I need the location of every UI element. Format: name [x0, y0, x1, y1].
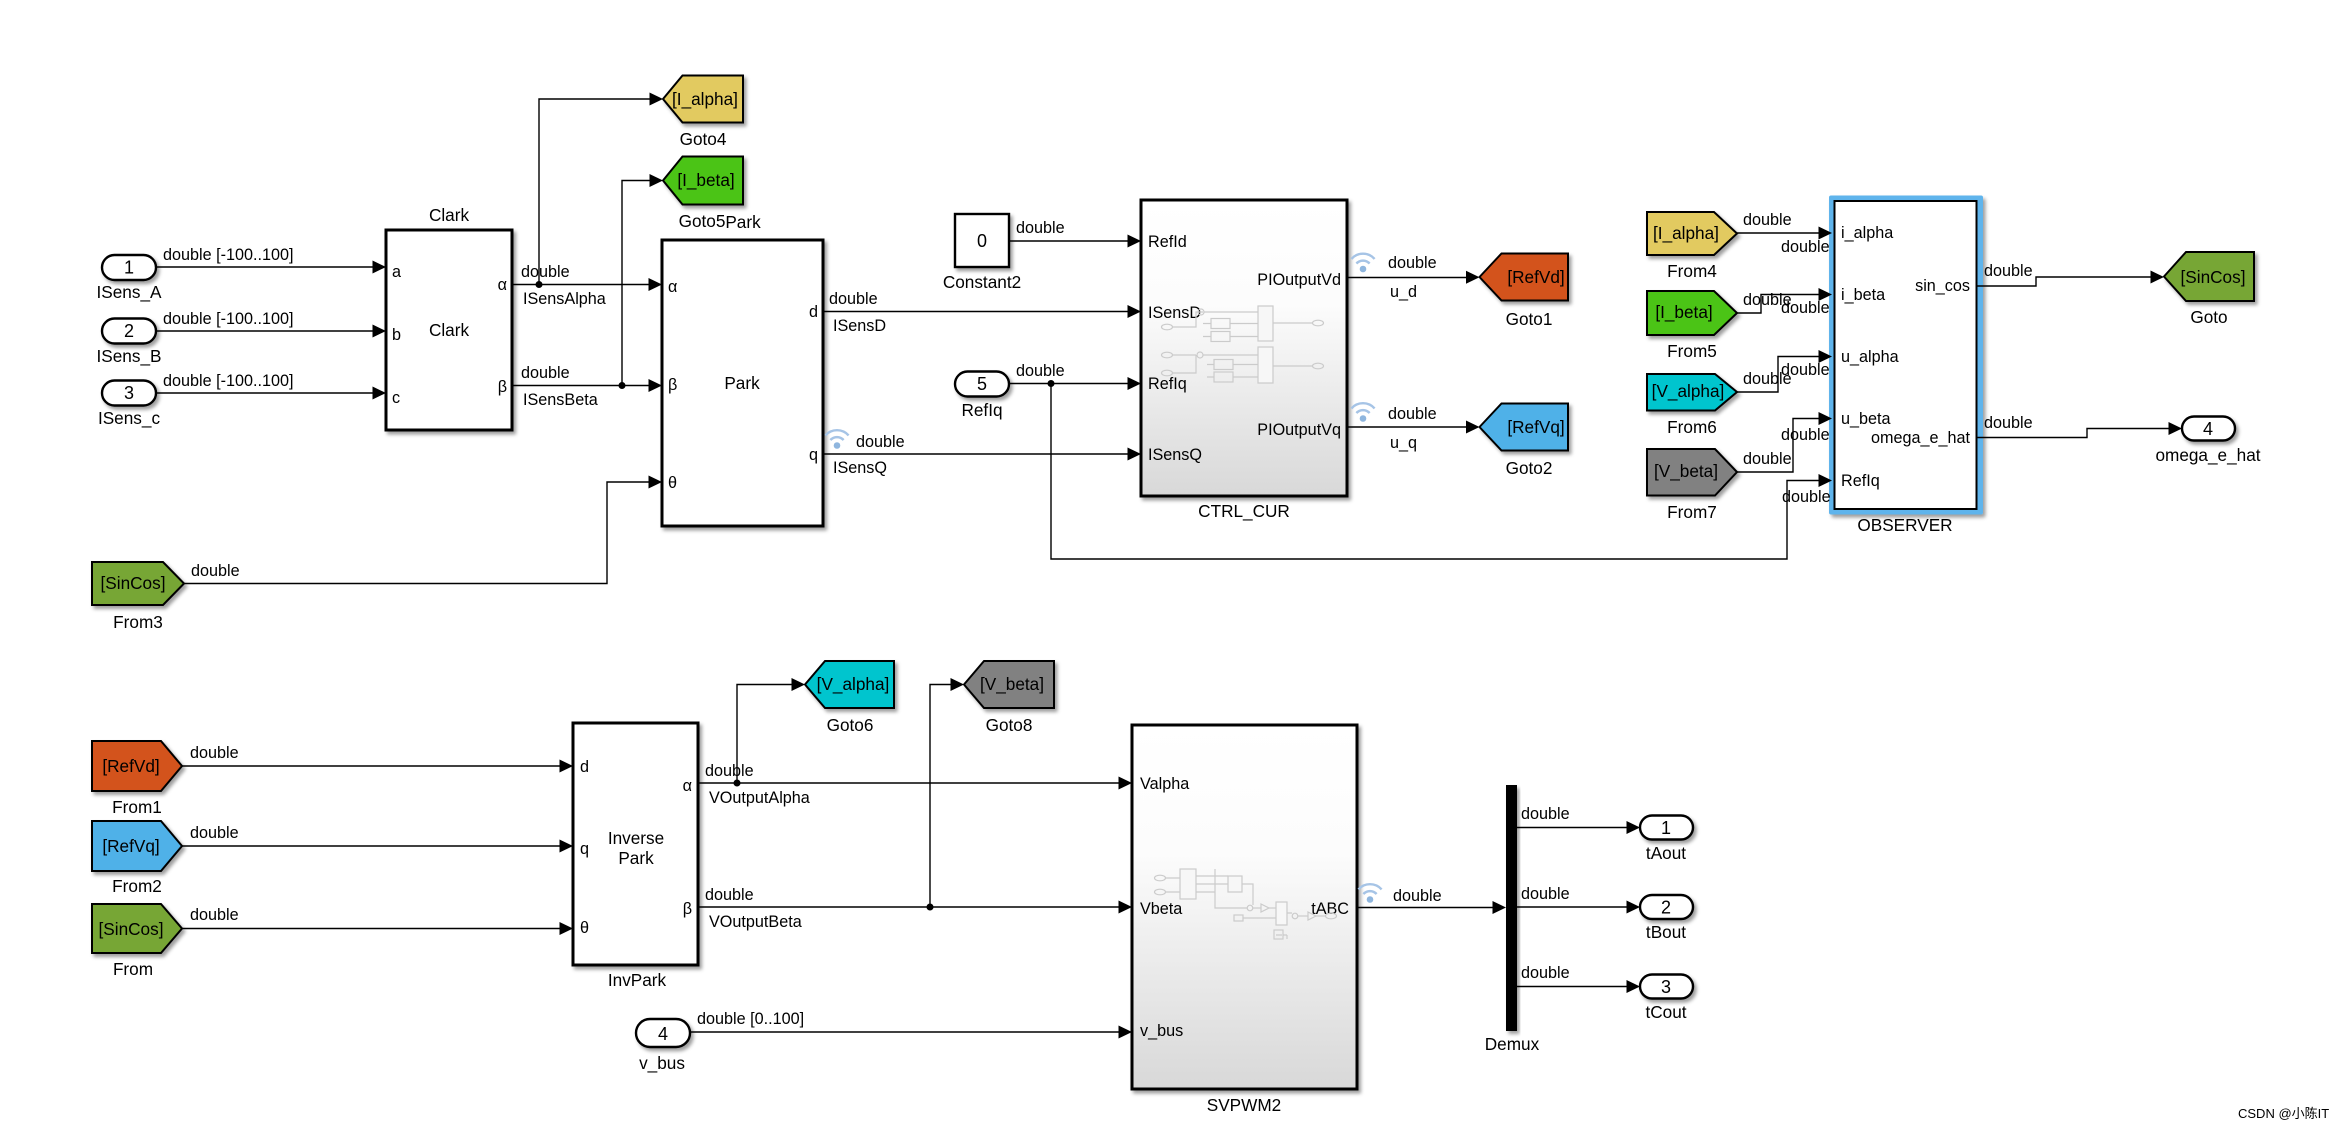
- svg-text:4: 4: [658, 1024, 668, 1044]
- wire sin_cos to Goto SinCos: [1977, 262, 2164, 286]
- svg-text:RefIq: RefIq: [1841, 472, 1880, 490]
- svg-text:CTRL_CUR: CTRL_CUR: [1198, 501, 1290, 521]
- svg-text:Goto6: Goto6: [827, 715, 874, 735]
- wire From6 to u_alpha: [1737, 350, 1832, 392]
- goto Goto SinCos: [2164, 252, 2254, 327]
- wire Demux to tBout: [1517, 885, 1640, 914]
- svg-text:double: double: [1782, 488, 1831, 506]
- svg-text:From: From: [113, 959, 153, 979]
- svg-text:OBSERVER: OBSERVER: [1857, 515, 1952, 535]
- svg-text:From1: From1: [112, 797, 162, 817]
- svg-text:3: 3: [1661, 977, 1671, 997]
- svg-text:double: double: [1016, 219, 1065, 237]
- svg-text:tBout: tBout: [1646, 922, 1686, 942]
- svg-text:double: double: [1781, 238, 1830, 256]
- svg-text:double: double: [1781, 299, 1830, 317]
- svg-text:[RefVq]: [RefVq]: [102, 836, 159, 856]
- svg-text:Vbeta: Vbeta: [1140, 900, 1182, 918]
- svg-text:v_bus: v_bus: [1140, 1022, 1183, 1040]
- svg-text:q: q: [580, 840, 589, 858]
- svg-text:RefId: RefId: [1148, 233, 1187, 251]
- svg-text:sin_cos: sin_cos: [1915, 277, 1970, 295]
- wire InvPark beta to Vbeta: [698, 886, 1132, 931]
- svg-text:α: α: [683, 777, 692, 795]
- wire From to InvPark theta: [182, 906, 573, 935]
- goto Goto6 V_alpha: [805, 661, 894, 735]
- goto Goto2 RefVq: [1480, 404, 1569, 479]
- svg-text:Goto: Goto: [2190, 307, 2227, 327]
- svg-text:d: d: [809, 303, 818, 321]
- wire From3 to Park theta: [184, 476, 662, 584]
- junction on VOutputAlpha: [734, 780, 741, 787]
- svg-text:a: a: [392, 263, 401, 281]
- svg-text:Goto5: Goto5: [679, 211, 726, 231]
- svg-text:i_alpha: i_alpha: [1841, 224, 1893, 242]
- svg-text:u_d: u_d: [1390, 283, 1417, 301]
- svg-text:omega_e_hat: omega_e_hat: [1871, 429, 1971, 447]
- svg-text:Demux: Demux: [1485, 1034, 1540, 1054]
- svg-text:β: β: [683, 900, 692, 918]
- svg-text:[I_alpha]: [I_alpha]: [1653, 223, 1719, 243]
- svg-text:double: double: [1743, 450, 1792, 468]
- svg-text:double: double: [1743, 211, 1792, 229]
- svg-text:double: double: [1388, 405, 1437, 423]
- from From6 V_alpha: [1647, 374, 1737, 437]
- svg-text:double: double: [1984, 262, 2033, 280]
- svg-text:[SinCos]: [SinCos]: [99, 919, 164, 939]
- outport 3 tCout: [1640, 975, 1693, 1023]
- svg-text:From5: From5: [1667, 341, 1717, 361]
- from From5 I_beta: [1647, 291, 1737, 361]
- goto Goto4 I_alpha: [663, 76, 743, 150]
- subsystem Clark: [386, 205, 512, 430]
- wire branch to Goto4: [539, 93, 663, 285]
- svg-text:b: b: [392, 326, 401, 344]
- svg-text:[V_alpha]: [V_alpha]: [817, 674, 890, 694]
- svg-text:double: double: [1521, 805, 1570, 823]
- svg-text:double: double: [190, 824, 239, 842]
- junction on RefIq wire: [1048, 380, 1055, 387]
- svg-text:[I_beta]: [I_beta]: [1655, 302, 1712, 322]
- svg-text:[V_beta]: [V_beta]: [980, 674, 1044, 694]
- svg-text:Clark: Clark: [429, 205, 470, 225]
- svg-text:From6: From6: [1667, 417, 1717, 437]
- svg-text:2: 2: [1661, 898, 1671, 918]
- subsystem OBSERVER selected: [1829, 196, 1983, 536]
- wire ISens_B to Clark b: [156, 310, 386, 338]
- svg-text:Clark: Clark: [429, 320, 470, 340]
- wire Demux to tCout: [1517, 964, 1640, 993]
- svg-text:[V_beta]: [V_beta]: [1654, 461, 1718, 481]
- from From4 I_alpha: [1647, 212, 1737, 281]
- svg-text:omega_e_hat: omega_e_hat: [2155, 445, 2260, 465]
- svg-text:Goto2: Goto2: [1506, 458, 1553, 478]
- svg-text:[SinCos]: [SinCos]: [101, 573, 166, 593]
- wire omega_e_hat to outport 4: [1977, 414, 2182, 438]
- svg-text:ISensAlpha: ISensAlpha: [523, 290, 606, 308]
- svg-text:ISensD: ISensD: [833, 317, 886, 335]
- goto Goto8 V_beta: [964, 661, 1054, 735]
- svg-text:ISensD: ISensD: [1148, 304, 1201, 322]
- svg-text:double: double: [829, 290, 878, 308]
- svg-text:From2: From2: [112, 876, 162, 896]
- svg-text:i_beta: i_beta: [1841, 286, 1885, 304]
- inport 4 v_bus: [636, 1019, 690, 1073]
- inport 5 RefIq: [955, 372, 1009, 421]
- junction on ISensBeta: [619, 382, 626, 389]
- from From2 RefVq: [92, 821, 182, 896]
- svg-text:u_q: u_q: [1390, 434, 1417, 452]
- svg-text:double: double: [191, 562, 240, 580]
- goto Goto1 RefVd: [1480, 254, 1569, 330]
- from From1 RefVd: [92, 741, 182, 817]
- wire Clark alpha to Park alpha: [512, 263, 662, 308]
- outport 2 tBout: [1640, 895, 1693, 942]
- subsystem SVPWM2: [1132, 725, 1357, 1115]
- subsystem Park: [662, 212, 823, 526]
- svg-text:Valpha: Valpha: [1140, 775, 1189, 793]
- wire ISens_A to Clark a: [156, 246, 386, 274]
- wire Park q to ISensQ: [823, 430, 1141, 477]
- wire tABC to Demux: [1357, 884, 1506, 914]
- svg-text:tABC: tABC: [1311, 900, 1349, 918]
- svg-text:β: β: [668, 376, 677, 394]
- svg-text:c: c: [392, 389, 400, 407]
- wire From4 to i_alpha: [1737, 211, 1832, 256]
- svg-text:Goto4: Goto4: [680, 129, 727, 149]
- inport 3 ISens_c: [98, 381, 161, 429]
- svg-text:Inverse: Inverse: [608, 828, 664, 848]
- svg-text:double [-100..100]: double [-100..100]: [163, 246, 294, 264]
- svg-text:[I_beta]: [I_beta]: [677, 170, 734, 190]
- svg-text:double: double: [1521, 964, 1570, 982]
- svg-text:α: α: [498, 276, 507, 294]
- svg-text:4: 4: [2203, 419, 2213, 439]
- wire From7 to u_beta: [1737, 412, 1832, 472]
- svg-text:3: 3: [124, 383, 134, 403]
- SVPWM2 content preview: [1155, 869, 1337, 939]
- svg-text:PIOutputVd: PIOutputVd: [1257, 271, 1341, 289]
- outport 1 tAout: [1640, 816, 1693, 864]
- goto Goto5 I_beta: [663, 157, 743, 232]
- junction on ISensAlpha: [536, 281, 543, 288]
- svg-text:InvPark: InvPark: [608, 970, 667, 990]
- svg-text:[RefVd]: [RefVd]: [102, 756, 159, 776]
- svg-text:q: q: [809, 446, 818, 464]
- svg-text:RefIq: RefIq: [961, 400, 1002, 420]
- svg-text:Goto1: Goto1: [1506, 309, 1553, 329]
- svg-text:Park: Park: [618, 848, 654, 868]
- svg-text:Park: Park: [725, 212, 761, 232]
- wire Clark beta to Park beta: [512, 364, 662, 409]
- wire From2 to InvPark q: [182, 824, 573, 853]
- svg-text:double: double: [190, 744, 239, 762]
- wire Park d to ISensD: [823, 290, 1141, 335]
- outport 4 omega_e_hat: [2155, 417, 2260, 466]
- wire ISens_c to Clark c: [156, 372, 386, 400]
- svg-text:Constant2: Constant2: [943, 272, 1021, 292]
- svg-text:double: double: [521, 263, 570, 281]
- svg-text:[SinCos]: [SinCos]: [2181, 267, 2246, 287]
- svg-text:1: 1: [124, 258, 134, 278]
- svg-text:CSDN @小陈IT: CSDN @小陈IT: [2238, 1106, 2329, 1121]
- svg-text:[RefVd]: [RefVd]: [1507, 267, 1564, 287]
- wire RefIq port to CTRL RefIq: [1009, 362, 1141, 390]
- svg-text:Park: Park: [724, 373, 760, 393]
- svg-text:VOutputBeta: VOutputBeta: [709, 913, 802, 931]
- svg-text:double: double: [856, 433, 905, 451]
- svg-text:5: 5: [977, 374, 987, 394]
- wire branch to Goto6: [737, 678, 805, 783]
- svg-text:2: 2: [124, 321, 134, 341]
- svg-text:From3: From3: [113, 612, 163, 632]
- svg-text:double [0..100]: double [0..100]: [697, 1010, 804, 1028]
- svg-text:u_alpha: u_alpha: [1841, 348, 1899, 366]
- svg-text:double: double: [190, 906, 239, 924]
- svg-text:double: double: [705, 762, 754, 780]
- svg-text:double: double: [521, 364, 570, 382]
- inport 1 ISens_A: [97, 255, 163, 302]
- svg-text:double: double: [1781, 361, 1830, 379]
- inport 2 ISens_B: [97, 319, 162, 367]
- svg-text:1: 1: [1661, 818, 1671, 838]
- svg-text:α: α: [668, 278, 677, 296]
- from From7 V_beta: [1647, 449, 1737, 522]
- svg-text:ISensBeta: ISensBeta: [523, 391, 598, 409]
- svg-text:double: double: [1984, 414, 2033, 432]
- svg-text:u_beta: u_beta: [1841, 410, 1891, 428]
- junction on VOutputBeta: [927, 904, 934, 911]
- constant Constant2: [943, 214, 1021, 292]
- wire PIOutputVd to Goto1: [1347, 254, 1480, 301]
- demux Demux: [1485, 785, 1540, 1054]
- svg-text:v_bus: v_bus: [639, 1053, 685, 1073]
- svg-text:ISensQ: ISensQ: [833, 459, 887, 477]
- svg-text:double [-100..100]: double [-100..100]: [163, 310, 294, 328]
- svg-text:PIOutputVq: PIOutputVq: [1257, 421, 1341, 439]
- svg-text:tAout: tAout: [1646, 843, 1686, 863]
- svg-text:double: double: [1393, 887, 1442, 905]
- svg-text:double: double: [1781, 426, 1830, 444]
- svg-text:0: 0: [977, 231, 987, 251]
- wire From5 to i_beta: [1737, 288, 1832, 317]
- svg-text:double: double: [1016, 362, 1065, 380]
- svg-text:SVPWM2: SVPWM2: [1207, 1095, 1282, 1115]
- svg-text:double: double: [705, 886, 754, 904]
- wire Constant2 to RefId: [1009, 219, 1141, 248]
- svg-text:[I_alpha]: [I_alpha]: [672, 89, 738, 109]
- wire RefIq branch to OBSERVER RefIq: [1051, 384, 1832, 560]
- svg-text:From4: From4: [1667, 261, 1717, 281]
- subsystem CTRL_CUR: [1141, 200, 1347, 521]
- wire Demux to tAout: [1517, 805, 1640, 834]
- subsystem InvPark: [573, 723, 698, 990]
- wire PIOutputVq to Goto2: [1347, 403, 1480, 452]
- wire From1 to InvPark d: [182, 744, 573, 773]
- svg-text:β: β: [498, 378, 507, 396]
- CTRL_CUR content preview: [1162, 306, 1324, 383]
- svg-text:θ: θ: [580, 919, 589, 937]
- svg-text:Goto8: Goto8: [986, 715, 1033, 735]
- svg-text:ISensQ: ISensQ: [1148, 446, 1202, 464]
- wire InvPark alpha to Valpha: [698, 762, 1132, 807]
- svg-text:d: d: [580, 758, 589, 776]
- svg-text:ISens_c: ISens_c: [98, 408, 161, 428]
- svg-text:RefIq: RefIq: [1148, 375, 1187, 393]
- wire branch to Goto5: [622, 174, 663, 386]
- wire branch to Goto8: [930, 678, 964, 907]
- svg-text:double [-100..100]: double [-100..100]: [163, 372, 294, 390]
- svg-text:double: double: [1388, 254, 1437, 272]
- svg-text:θ: θ: [668, 474, 677, 492]
- from From SinCos: [92, 904, 182, 979]
- from From3 SinCos: [92, 562, 184, 632]
- wire v_bus to SVPWM2: [690, 1010, 1132, 1039]
- svg-text:double: double: [1521, 885, 1570, 903]
- svg-text:VOutputAlpha: VOutputAlpha: [709, 789, 810, 807]
- svg-text:[RefVq]: [RefVq]: [1507, 417, 1564, 437]
- svg-text:tCout: tCout: [1645, 1002, 1686, 1022]
- svg-text:ISens_A: ISens_A: [97, 282, 163, 302]
- svg-text:[V_alpha]: [V_alpha]: [1652, 381, 1725, 401]
- svg-text:From7: From7: [1667, 502, 1717, 522]
- svg-text:ISens_B: ISens_B: [97, 346, 162, 366]
